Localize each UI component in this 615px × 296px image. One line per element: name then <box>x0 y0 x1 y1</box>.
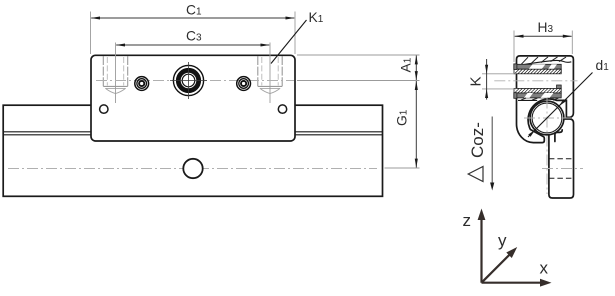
rail mounting hole <box>183 159 202 178</box>
dimension C1 <box>91 2 296 54</box>
rail centerline <box>8 168 377 170</box>
dimension K <box>468 59 517 100</box>
lube port right <box>237 77 251 91</box>
Coz- moment label <box>468 117 494 191</box>
leg hole centerline <box>542 168 583 170</box>
dimension A1 <box>399 55 418 80</box>
roller centerline vertical <box>546 98 548 195</box>
set screw right K1 (hidden) <box>258 56 282 94</box>
coordinate axes <box>482 217 544 283</box>
extension lines right <box>297 54 420 56</box>
screw-right centerline <box>269 43 271 104</box>
set screw left (hidden) <box>103 56 127 94</box>
dimension G1 <box>395 81 418 168</box>
rail leg (section) <box>549 119 574 198</box>
top seal <box>519 57 572 66</box>
block corner hole left <box>100 105 108 113</box>
roller centerline horizontal <box>524 117 572 119</box>
central bushing <box>170 62 207 99</box>
svg-text:x: x <box>540 259 549 278</box>
upper slide strip assembly <box>514 64 561 74</box>
block corner hole right <box>278 105 286 113</box>
dimension d1 <box>528 58 609 137</box>
svg-text:Coz-: Coz- <box>468 122 487 158</box>
rail (front view) <box>3 105 382 196</box>
roller d1 <box>530 101 564 135</box>
slot bottom edges <box>518 99 537 101</box>
screw-left centerline <box>115 43 117 104</box>
lower slide strip assembly <box>514 85 561 100</box>
dimension C3 <box>116 29 270 47</box>
section centerline horizontal K <box>494 80 577 82</box>
svg-text:z: z <box>463 211 472 230</box>
block centerline horizontal <box>96 80 294 82</box>
svg-text:y: y <box>498 231 507 250</box>
lube port left <box>135 77 149 91</box>
dimension H3 <box>514 20 572 62</box>
carriage block <box>91 55 295 141</box>
rail raceway nub <box>555 130 562 142</box>
leader K1 <box>271 10 324 64</box>
svg-text:K: K <box>468 76 485 86</box>
slider body (section) <box>517 56 574 143</box>
